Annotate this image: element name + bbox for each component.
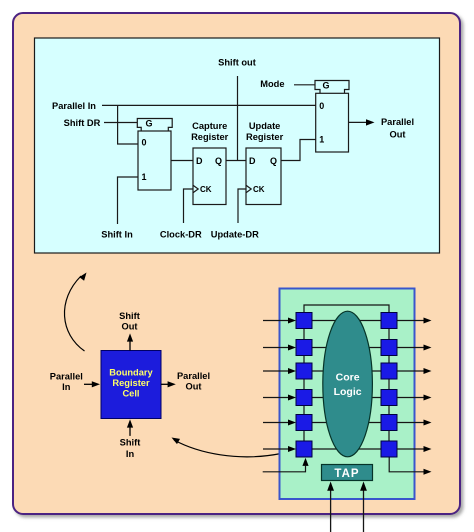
wire: update Q to mux U4 1-input bbox=[281, 140, 316, 161]
wire: row3 through chip bbox=[312, 370, 381, 372]
svg-text:Update: Update bbox=[249, 121, 281, 131]
svg-text:Register: Register bbox=[112, 378, 150, 388]
arrowhead: output row4 bbox=[424, 395, 432, 401]
wire: TAP input 2 bbox=[363, 491, 365, 532]
wire: input row2 bbox=[263, 347, 289, 349]
wire: input row6 bbox=[263, 448, 289, 450]
arrowhead: output row2 bbox=[424, 345, 432, 351]
wire: output row3 bbox=[397, 370, 424, 372]
arrow: cell Parallel Out bbox=[161, 383, 168, 385]
svg-text:In: In bbox=[126, 449, 135, 459]
cell R3 bbox=[381, 363, 397, 379]
svg-text:0: 0 bbox=[319, 101, 324, 111]
cell L3 bbox=[296, 363, 312, 379]
svg-text:Parallel: Parallel bbox=[177, 371, 210, 381]
cell R1 bbox=[381, 313, 397, 329]
svg-text:0: 0 bbox=[142, 138, 147, 148]
arrow: cell Shift Out bbox=[129, 341, 131, 351]
svg-text:Boundary: Boundary bbox=[109, 368, 153, 378]
arrowhead: output row6 bbox=[424, 446, 432, 452]
cell R5 bbox=[381, 415, 397, 431]
mux U4 G-box bbox=[315, 81, 349, 94]
wire: scan in bbox=[263, 466, 306, 472]
wire: chain link L3-L4 bbox=[303, 379, 305, 390]
wire: Parallel Out bbox=[349, 121, 367, 123]
wire: TAP input 1 bbox=[330, 491, 332, 532]
arrowhead: scan in up bbox=[302, 458, 308, 466]
wire: input row3 bbox=[263, 370, 289, 372]
cell L5 bbox=[296, 415, 312, 431]
mux U1 body bbox=[138, 131, 171, 190]
svg-text:Core: Core bbox=[336, 372, 360, 384]
svg-text:Out: Out bbox=[389, 130, 405, 140]
wire: chain link R4-R5 bbox=[388, 406, 390, 415]
svg-text:Q: Q bbox=[215, 156, 222, 166]
wire: chain link L5-L6 bbox=[303, 431, 305, 442]
cell R6 bbox=[381, 441, 397, 457]
TAP controller box bbox=[322, 465, 373, 481]
cell L6 bbox=[296, 441, 312, 457]
wire: chain link R3-R4 bbox=[388, 379, 390, 390]
svg-text:1: 1 bbox=[319, 134, 324, 144]
svg-text:1: 1 bbox=[142, 172, 147, 182]
wire: output row5 bbox=[397, 422, 424, 424]
wire: row1 through chip bbox=[312, 320, 381, 322]
wire: Shift In to mux U1 1-input bbox=[118, 177, 139, 224]
wire: scan out bbox=[389, 457, 423, 472]
update register U3 bbox=[246, 148, 281, 205]
wire: chain link L1-L2 bbox=[303, 329, 305, 340]
wire: row5 through chip bbox=[312, 422, 381, 424]
wire: Shift DR to G select bbox=[104, 122, 137, 124]
arrow: cell Parallel In bbox=[84, 383, 93, 385]
wire: output row6 bbox=[397, 448, 424, 450]
mux U4 body bbox=[316, 93, 349, 152]
boundary register cell box bbox=[101, 351, 161, 419]
mux U1 G-box bbox=[137, 119, 172, 132]
cell schematic box (cyan) bbox=[35, 38, 440, 253]
wire: row6 through chip bbox=[312, 448, 381, 450]
capture register U2 bbox=[193, 148, 226, 205]
update register clock wedge bbox=[246, 185, 251, 192]
svg-text:CK: CK bbox=[200, 185, 212, 194]
svg-text:Parallel: Parallel bbox=[381, 117, 414, 127]
svg-text:Shift: Shift bbox=[119, 311, 140, 321]
svg-text:Out: Out bbox=[121, 321, 137, 331]
wire: Parallel In bus bbox=[102, 104, 316, 106]
wire: output row2 bbox=[397, 347, 424, 349]
arrowhead: input row6 bbox=[288, 446, 296, 452]
svg-text:CK: CK bbox=[253, 185, 265, 194]
wire: Shift out vertical bbox=[237, 76, 239, 161]
wire: Parallel In branch to mux1 0-input bbox=[118, 105, 138, 144]
svg-text:Capture: Capture bbox=[192, 121, 227, 131]
svg-text:Q: Q bbox=[270, 156, 277, 166]
boundary cells left column bbox=[296, 313, 397, 458]
arrowhead: input row2 bbox=[288, 345, 296, 351]
svg-text:G: G bbox=[146, 119, 153, 129]
arrowhead: Parallel Out bbox=[366, 119, 375, 125]
svg-text:Shift: Shift bbox=[120, 438, 141, 448]
arrowhead: input row5 bbox=[288, 420, 296, 426]
wire: output row4 bbox=[397, 397, 424, 399]
svg-text:Clock-DR: Clock-DR bbox=[160, 229, 202, 239]
svg-text:Cell: Cell bbox=[122, 389, 139, 399]
cell R4 bbox=[381, 390, 397, 406]
core logic ellipse bbox=[323, 311, 373, 457]
wire: chain link R1-R2 bbox=[388, 329, 390, 340]
arrowhead: scan out bbox=[424, 469, 432, 475]
arrowhead: input row1 bbox=[288, 318, 296, 324]
wire: input row4 bbox=[263, 397, 289, 399]
arrowhead: TAP input 2 bbox=[360, 482, 367, 491]
wire: output row1 bbox=[397, 320, 424, 322]
svg-text:D: D bbox=[249, 156, 256, 166]
arrowhead: input row3 bbox=[288, 368, 296, 374]
svg-text:Parallel: Parallel bbox=[50, 371, 83, 381]
wire: input row5 bbox=[263, 422, 289, 424]
cell R2 bbox=[381, 340, 397, 356]
cell L2 bbox=[296, 340, 312, 356]
capture register clock wedge bbox=[193, 185, 198, 192]
wire: chain link R5-R6 bbox=[388, 431, 390, 442]
wire: Mode to G select bbox=[294, 84, 315, 86]
svg-text:Shift out: Shift out bbox=[218, 58, 256, 68]
svg-text:Logic: Logic bbox=[334, 386, 362, 398]
svg-text:Parallel In: Parallel In bbox=[52, 101, 96, 111]
cell L1 bbox=[296, 313, 312, 329]
cell L4 bbox=[296, 390, 312, 406]
svg-text:G: G bbox=[323, 80, 330, 90]
wire: input row1 bbox=[263, 320, 289, 322]
wire: chain link R2-R3 bbox=[388, 356, 390, 364]
svg-text:Update-DR: Update-DR bbox=[211, 229, 259, 239]
svg-text:Shift DR: Shift DR bbox=[64, 118, 101, 128]
wire: row4 through chip bbox=[312, 397, 381, 399]
arrowhead: input row4 bbox=[288, 395, 296, 401]
svg-text:D: D bbox=[196, 156, 203, 166]
svg-text:In: In bbox=[62, 382, 71, 392]
annotation arrow: chip square to cell bbox=[174, 440, 281, 457]
arrowhead: TAP input 1 bbox=[327, 482, 334, 491]
svg-text:Mode: Mode bbox=[260, 79, 284, 89]
wire: Update-DR bbox=[238, 189, 246, 223]
wire: chain link L4-L5 bbox=[303, 406, 305, 415]
wire: row2 through chip bbox=[312, 347, 381, 349]
wire: scan chain top link bbox=[304, 305, 389, 313]
wire: mux U1 output to capture D bbox=[171, 160, 193, 162]
wire: Clock-DR bbox=[184, 189, 194, 223]
svg-text:Out: Out bbox=[185, 381, 201, 391]
arrowhead: output row1 bbox=[424, 318, 432, 324]
svg-text:Register: Register bbox=[246, 132, 284, 142]
annotation arrow: cell to schematic bbox=[64, 276, 84, 351]
svg-text:Shift In: Shift In bbox=[101, 229, 133, 239]
wire: capture Q to update D bbox=[226, 160, 246, 162]
wire: chain link L2-L3 bbox=[303, 356, 305, 364]
chip outline (green) bbox=[280, 289, 415, 500]
arrow: cell Shift In bbox=[129, 427, 131, 436]
arrowhead: output row5 bbox=[424, 420, 432, 426]
arrowhead: output row3 bbox=[424, 368, 432, 374]
svg-text:Register: Register bbox=[191, 132, 229, 142]
svg-text:TAP: TAP bbox=[334, 468, 359, 480]
